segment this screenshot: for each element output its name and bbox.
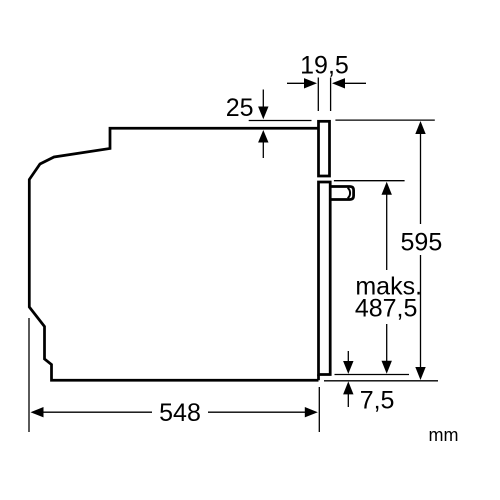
dim 548 line left segment [42,411,152,413]
dim 595 top extension line [335,119,434,121]
dim 548 line right segment [208,411,306,413]
dim 7,5 upper arrow [347,351,349,362]
body bottom extension line [324,380,438,382]
door handle [330,187,353,200]
dim 548 right arrow [305,407,318,417]
handle end inner arc [348,188,350,198]
door bottom extension line [335,374,410,376]
dim 25 extension line [249,120,312,122]
dim 595 bottom arrow [415,367,425,380]
dim 548 left arrow [31,407,44,417]
dim 19,5 extension line right [330,78,332,112]
dim 595 line lower segment [420,255,422,368]
dim 548 extension line left [28,318,30,432]
oven door panel [319,182,331,375]
dim 595 line upper segment [420,133,422,224]
oven body outline [29,128,318,380]
top frame above door [319,121,330,176]
svg-text:7,5: 7,5 [360,387,395,415]
svg-text:25: 25 [226,94,254,122]
dim 7,5 lower arrow [343,381,353,394]
svg-text:19,5: 19,5 [300,52,349,80]
svg-text:595: 595 [401,228,443,256]
dim maks top arrow [382,182,392,195]
dim maks line upper segment [386,194,388,270]
dim 25 up arrow [262,141,264,158]
dim maks bottom arrow [382,361,392,374]
dim maks 487,5 top extension line [334,180,405,182]
dim maks line lower segment [386,324,388,361]
dim 595 top arrow [415,121,425,134]
dim 19,5 extension line left [317,78,319,112]
svg-text:mm: mm [429,425,459,445]
svg-text:548: 548 [159,399,201,427]
dim 548 extension line right [318,387,320,432]
svg-text:487,5: 487,5 [355,295,418,323]
dim 19,5 left arrow [287,82,305,84]
door lower left edge [317,375,320,381]
dim 25 down arrow [262,90,264,108]
dim 19,5 right arrow [345,82,366,84]
